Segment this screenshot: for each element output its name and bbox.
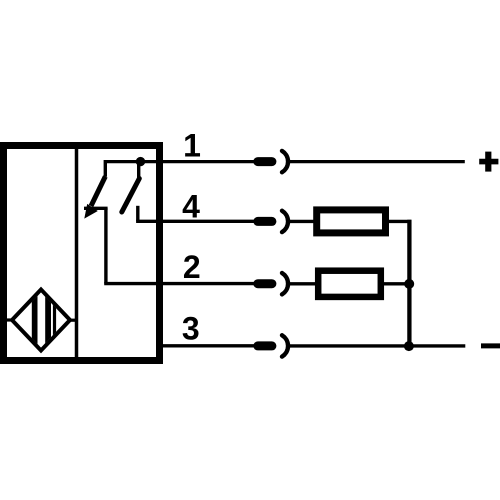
connector X1 socket contact on wire 2	[282, 273, 288, 294]
sensor symbol inner thin line	[53, 288, 56, 352]
connector X1 pin contact on wire 3	[258, 341, 272, 350]
connector X1 socket contact on wire 4	[282, 211, 288, 232]
switch contact S1 movable arm (with arrow)	[91, 177, 105, 207]
wire 2: connector to load R2	[289, 282, 318, 285]
node: junction dot wire 2 / vertical bus	[404, 279, 414, 289]
load resistor R1 on wire 4	[317, 210, 386, 233]
connector X1 pin contact on wire 2	[258, 279, 272, 288]
wire 4: load R1 to right vertical bus	[388, 220, 412, 223]
wire 3: box to connector	[158, 344, 256, 347]
wire 2: box to connector	[104, 282, 255, 285]
wire: stub of pin 4 fixed terminal	[136, 206, 139, 222]
minus terminal sign	[481, 343, 500, 348]
wire: right vertical bus from wire 4 down to wire 3	[407, 220, 411, 346]
wire: stub from wire 1 down to left contact	[104, 160, 107, 177]
wire: rhombus left vertex to box edge	[6, 318, 14, 321]
wire: stub from junction dot down to right contact	[137, 163, 140, 178]
svg-text:3: 3	[182, 311, 200, 347]
wire 4: connector to load R1	[289, 220, 316, 223]
svg-text:4: 4	[182, 189, 200, 225]
plus terminal sign	[479, 152, 498, 172]
switch contact S1 fixed terminal line	[84, 207, 108, 210]
inductive sensor symbol: rhombus	[12, 290, 70, 351]
wire 1: box to connector	[158, 160, 256, 163]
sensor body box	[4, 146, 160, 361]
load resistor R2 on wire 2	[318, 271, 381, 297]
sensor body divider line	[75, 148, 79, 358]
sensor symbol inner right bar	[45, 288, 51, 352]
wire 2: load R2 to right vertical bus	[383, 282, 409, 285]
sensor symbol inner left bar	[32, 288, 38, 352]
wire 3: connector to minus terminal	[289, 344, 466, 347]
connector X1 pin contact on wire 1	[258, 157, 272, 166]
svg-text:2: 2	[183, 249, 201, 285]
node: junction dot wire 3 / vertical bus	[404, 341, 414, 351]
svg-text:1: 1	[183, 128, 201, 164]
wire: internal horizontal of pin 1	[104, 160, 163, 163]
wire 4: box to connector	[136, 220, 255, 223]
connector X1 pin contact on wire 4	[258, 217, 272, 226]
connector X1 socket contact on wire 3	[282, 335, 288, 356]
connector X1 socket contact on wire 1	[282, 151, 288, 172]
switch contact S2 movable arm	[122, 179, 140, 213]
wire: rhombus right vertex to divider	[69, 319, 77, 322]
switch contact S1 arrowhead	[84, 204, 98, 219]
node: junction dot on wire 1 inside box	[136, 157, 145, 166]
wire: vertical from S1 fixed terminal down to wire 2	[104, 208, 107, 284]
wire 1: connector to plus terminal	[289, 160, 465, 163]
